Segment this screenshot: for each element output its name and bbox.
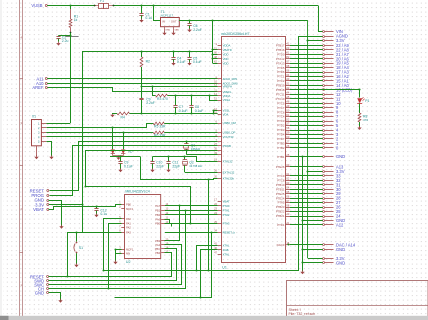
svg-text:PTC4: PTC4 <box>277 115 285 119</box>
node 28 <box>323 198 325 200</box>
svg-text:PB4: PB4 <box>155 251 160 255</box>
wire right row <box>290 112 323 114</box>
wire right row2 <box>290 198 323 200</box>
svg-text:PTA12: PTA12 <box>276 57 285 61</box>
wire GND row3 <box>302 249 323 251</box>
junction 3V3-bus <box>211 19 213 21</box>
wire right row <box>290 107 323 109</box>
svg-text:PTE26: PTE26 <box>276 165 285 169</box>
node 17 / A3 <box>323 72 325 74</box>
svg-text:PTB23: PTB23 <box>276 205 285 209</box>
svg-text:U2: U2 <box>126 260 131 264</box>
svg-text:R2: R2 <box>146 60 150 64</box>
ground C11 <box>166 170 170 173</box>
pin U2 PA2 <box>121 227 125 229</box>
node 6 <box>323 121 325 123</box>
ground C6 <box>187 30 191 32</box>
node 1 <box>323 143 325 145</box>
node 27 <box>323 202 325 204</box>
pin U1 PTD1 right2 <box>286 224 291 226</box>
ground S1 <box>74 265 78 268</box>
wire GND bus v2 <box>302 157 304 272</box>
wire VUSB rail right <box>113 5 319 7</box>
resistor R1 <box>70 6 72 10</box>
pin U1 PTA13 right <box>286 63 291 65</box>
capacitor C10 <box>152 157 154 162</box>
pin X1-4 <box>41 136 46 138</box>
svg-text:MCF1: MCF1 <box>126 247 134 251</box>
svg-text:PA4: PA4 <box>155 243 160 247</box>
wire right row <box>290 76 323 78</box>
svg-text:GND: GND <box>165 30 170 32</box>
wire right row <box>290 134 323 136</box>
node 3.3V <box>323 40 325 42</box>
pin U1 PTC2 right <box>286 80 291 82</box>
pin U1 PTB23 right2 <box>286 207 291 209</box>
node 11 <box>323 98 325 100</box>
resistor R4 <box>112 113 117 115</box>
wire swd d <box>165 220 191 224</box>
junction VUSB-T1 <box>152 4 154 6</box>
svg-text:PB3: PB3 <box>155 239 160 243</box>
pin U2 PB0 <box>121 204 125 206</box>
wire VBUS down to X1 <box>70 35 72 123</box>
svg-text:PB1: PB1 <box>155 208 160 212</box>
wire Q2 bottom to EXTAL32 <box>185 172 218 174</box>
wire GND row2 <box>302 220 323 222</box>
svg-text:32.768 kHz: 32.768 kHz <box>189 164 203 168</box>
pin U1 VREFH <box>218 86 222 88</box>
pin U1 PTD0 right <box>286 54 291 56</box>
wire AREF <box>48 88 218 92</box>
junction VUSB-R1 <box>69 4 71 6</box>
wire right row2 <box>290 216 323 218</box>
pin U1 PTB18 right <box>286 89 291 91</box>
pin U2 PB0 right <box>161 223 165 225</box>
svg-text:PTB17: PTB17 <box>276 44 285 48</box>
pin U1 USB0_DM <box>218 123 222 125</box>
wire VDD feed <box>213 54 218 56</box>
capacitor C1 <box>141 6 143 14</box>
junction VDDA-C8 <box>190 94 192 96</box>
svg-text:PTD0: PTD0 <box>277 52 285 56</box>
svg-text:2.2u: 2.2u <box>62 39 69 43</box>
svg-text:PTA3: PTA3 <box>223 222 230 226</box>
node 0 <box>323 147 325 149</box>
svg-text:VSSA: VSSA <box>223 98 231 102</box>
pin U2 PA1 <box>121 223 125 225</box>
wire U2 reset to U1 <box>165 232 218 234</box>
svg-text:Q2: Q2 <box>189 160 194 164</box>
junction swd d <box>189 222 191 224</box>
node 31 <box>323 184 325 186</box>
svg-text:NCP1117: NCP1117 <box>161 13 174 17</box>
wire X1 D- to R5 <box>47 124 154 128</box>
svg-text:PTA0: PTA0 <box>223 204 230 208</box>
ground T1 GND <box>162 33 166 36</box>
wire right row <box>290 63 323 65</box>
svg-text:0.1uF: 0.1uF <box>193 60 202 64</box>
wire VSS stub <box>214 111 218 114</box>
svg-text:PTD2: PTD2 <box>277 124 285 128</box>
node DAC / A14 <box>323 244 325 246</box>
pin U1 PTC6 right <box>286 112 291 114</box>
svg-text:VDD: VDD <box>223 61 229 65</box>
wire U2 pa0 route <box>104 219 122 271</box>
svg-text:PTA1: PTA1 <box>223 208 230 212</box>
wire 32k top net <box>153 157 218 162</box>
svg-text:VDDA: VDDA <box>223 44 231 48</box>
wire Dminus drop <box>112 128 114 150</box>
pin U1 ADC0_DP0 <box>218 78 222 80</box>
svg-text:P1: P1 <box>365 99 369 103</box>
pin U2 PB1 right <box>161 210 165 212</box>
svg-text:0.1uF: 0.1uF <box>179 109 188 113</box>
ground T1 TAB <box>171 33 175 36</box>
wire right row <box>290 130 323 132</box>
junction v2 c <box>301 261 303 263</box>
pin U1 VOUT33 <box>218 136 222 138</box>
ground C12 <box>94 215 98 218</box>
junction pb3 riser <box>178 204 180 206</box>
wire pad2 RESET <box>49 253 172 277</box>
pin U1 XTAL32 <box>218 161 222 163</box>
wire CH up route <box>109 224 122 289</box>
pin X1-5 <box>41 141 46 143</box>
pin U1 VDDA <box>218 45 222 47</box>
junction VREFH-R3 <box>151 85 153 87</box>
wire reset bottom route <box>115 233 212 298</box>
svg-text:PB2: PB2 <box>155 213 160 217</box>
crystal Q1 <box>186 141 188 143</box>
pin U1 <box>218 141 222 143</box>
svg-text:AREF: AREF <box>32 85 44 90</box>
capacitor C12 <box>96 207 98 209</box>
junction Q1 <box>185 140 187 142</box>
wire R5 to USB0_DM <box>164 123 217 125</box>
wire aux route lower <box>86 187 218 224</box>
node VIN <box>323 31 325 33</box>
pin U1 PTC8 right2 <box>286 180 291 182</box>
pin U1 PTC9 right2 <box>286 175 291 177</box>
svg-text:U1: U1 <box>222 266 227 270</box>
svg-text:PSWB: PSWB <box>223 144 231 148</box>
pin U1 USB0_DP <box>218 132 222 134</box>
svg-text:VDD: VDD <box>223 57 229 61</box>
scrollbar bottom <box>0 316 428 320</box>
pin U2 MCF1 <box>121 208 125 210</box>
wire pad 3.3V <box>49 204 83 206</box>
junction VREFH-C9 <box>140 85 142 87</box>
svg-text:PTB22: PTB22 <box>276 210 285 214</box>
wire 3.3V drop right <box>307 21 309 258</box>
junction reset pad2 <box>66 275 68 277</box>
capacitor C8 <box>191 96 193 106</box>
wire right row2 <box>290 207 323 209</box>
wire 3.3V rail <box>179 20 308 22</box>
wire right row <box>290 103 323 105</box>
svg-text:PTD7: PTD7 <box>277 137 285 141</box>
pin U1 PTE26 right2 <box>286 166 291 168</box>
regulator T1 <box>161 18 180 27</box>
junction reset drop <box>210 231 212 233</box>
pin U1 PTB16 right <box>286 49 291 51</box>
pin U1 PTC3 right <box>286 121 291 123</box>
ground D1 <box>116 157 120 160</box>
node GND <box>323 156 325 158</box>
pin U2 PB3 right <box>161 240 165 242</box>
node A12 <box>323 224 325 226</box>
svg-text:PTC3: PTC3 <box>277 119 285 123</box>
wire right row2 <box>290 189 323 191</box>
pin U1 PTC10 right <box>286 98 291 100</box>
title block <box>287 281 428 317</box>
node 18 / A4 <box>323 67 325 69</box>
wire R3 drop <box>153 87 156 96</box>
junction LED <box>358 88 360 90</box>
junction 208 bottom <box>207 269 209 271</box>
svg-text:GND: GND <box>35 291 44 296</box>
wire VDDA sub <box>210 96 218 101</box>
junction west-C5 <box>188 50 190 52</box>
wire swd a <box>165 205 218 207</box>
node 32 <box>323 180 325 182</box>
junction west-R2 <box>140 50 142 52</box>
pin U1 VDD <box>218 54 222 56</box>
wire right row2 <box>290 202 323 204</box>
junction gnd-C9 <box>140 112 142 114</box>
svg-text:22pF: 22pF <box>156 164 164 168</box>
node 2 <box>323 138 325 140</box>
svg-text:USB0_DM: USB0_DM <box>223 121 237 125</box>
svg-text:0.1uF: 0.1uF <box>124 164 133 168</box>
svg-text:PTE24: PTE24 <box>276 196 285 200</box>
wire right row <box>290 49 323 51</box>
wire R1 to C2 <box>59 35 70 37</box>
capacitor C4 <box>173 51 175 57</box>
pin U1 PTC1 right <box>286 76 291 78</box>
pin U1 RESET_b <box>218 232 222 234</box>
svg-text:GND: GND <box>336 247 345 252</box>
wire pad2 SWC <box>49 245 182 285</box>
pin U1 PTB10 right2 <box>286 184 291 186</box>
svg-text:A12: A12 <box>336 222 344 227</box>
capacitor C2 <box>58 35 60 37</box>
wire swd c <box>165 214 218 216</box>
svg-text:VBAT: VBAT <box>33 207 44 212</box>
wire right row2 <box>290 193 323 195</box>
wire right row <box>290 45 323 47</box>
node 16 / A2 <box>323 76 325 78</box>
svg-text:OUT: OUT <box>171 20 177 24</box>
wire right row <box>290 116 323 118</box>
node 5 <box>323 125 325 127</box>
node 13 (LED) <box>323 89 325 91</box>
resistor R3 <box>156 94 168 97</box>
junction pad 3.3V <box>81 203 83 205</box>
svg-text:PTC5: PTC5 <box>277 101 285 105</box>
ground R8 <box>357 128 361 131</box>
svg-text:VOUT33: VOUT33 <box>223 135 234 139</box>
junction pa0 route <box>102 269 104 271</box>
wire right row <box>290 72 323 74</box>
pin U1 PTB22 right2 <box>286 211 291 213</box>
wire right row2 <box>290 224 323 226</box>
pin U2 PBC right <box>161 248 165 250</box>
svg-text:PTD5: PTD5 <box>277 66 285 70</box>
svg-text:0.1uF: 0.1uF <box>177 60 186 64</box>
svg-text:mk20DX256vLH7: mk20DX256vLH7 <box>221 32 249 36</box>
svg-text:MKL04Z32VLC4: MKL04Z32VLC4 <box>125 190 150 194</box>
svg-text:VBAT: VBAT <box>223 199 230 203</box>
pin U1 PSWB <box>218 145 222 147</box>
pin T1 GND <box>164 27 166 33</box>
wire right row <box>290 125 323 127</box>
pin U1 PTC5 right <box>286 103 291 105</box>
pin U1 VSSL <box>218 110 222 112</box>
junction v2 b <box>301 248 303 250</box>
pin U1 PTB1 right <box>286 156 291 158</box>
pin U1 VDD <box>218 58 222 60</box>
svg-text:PA1: PA1 <box>126 221 131 225</box>
pin X1-2 <box>41 127 46 129</box>
node 8 <box>323 112 325 114</box>
svg-text:22pF: 22pF <box>172 164 180 168</box>
pin U1 PTB19 right <box>286 85 291 87</box>
wire swd e <box>165 224 172 227</box>
pin U1 PTD6 right <box>286 72 291 74</box>
pin U1 PTB21 right2 <box>286 216 291 218</box>
wire right row <box>290 121 323 123</box>
diode D1a <box>111 150 115 154</box>
junction aux <box>84 185 86 187</box>
capacitor C11 <box>168 157 170 162</box>
svg-text:PTB11: PTB11 <box>276 187 285 191</box>
junction gnd-C7 <box>174 112 176 114</box>
svg-text:USB0_DP: USB0_DP <box>223 130 236 134</box>
wire DAC row <box>290 244 323 246</box>
junction DAC row <box>287 243 289 245</box>
wire right row <box>290 98 323 100</box>
pin U1 PTA5 right2 <box>286 202 291 204</box>
pin U1 XGB <box>218 249 222 251</box>
pin U1 PTB3 right <box>286 143 291 145</box>
svg-text:470: 470 <box>363 118 368 122</box>
pin U1 PTC7 right <box>286 107 291 109</box>
wire right row <box>290 147 323 149</box>
ground C5 <box>187 63 191 66</box>
junction S1 <box>75 231 77 233</box>
wire right row2 <box>290 184 323 186</box>
pin U1 VREFL <box>218 91 222 93</box>
wire pad VBAT <box>49 205 122 210</box>
wire X1 pin5 to gnd <box>47 142 52 157</box>
wire X1 pin4 <box>46 136 217 138</box>
wire reset net bottom <box>68 233 122 277</box>
svg-text:PTC9: PTC9 <box>277 174 285 178</box>
ground C1 <box>139 20 143 23</box>
svg-text:VDD: VDD <box>223 52 229 56</box>
node 12 <box>323 94 325 96</box>
node 33 <box>323 175 325 177</box>
node GND <box>323 262 325 264</box>
ground X1 shield <box>34 157 38 160</box>
pin T1 TAB <box>173 27 175 33</box>
wire right row2 <box>290 211 323 213</box>
pin U1 PTD5 right <box>286 67 291 69</box>
wire A10 <box>47 83 217 85</box>
node 30 <box>323 189 325 191</box>
junction D+ diode <box>122 131 124 133</box>
pin U1 XTAL <box>218 254 222 256</box>
wire X1 D+ to R6 <box>46 132 153 134</box>
resistor R8 <box>359 103 361 113</box>
fuse F1 <box>95 5 99 7</box>
svg-text:MCF1: MCF1 <box>126 207 134 211</box>
junction 3V3 row <box>306 39 308 41</box>
wire GND row4 <box>302 262 323 264</box>
wire 3.3V to label <box>308 40 323 42</box>
wire R6 to USB0_DP <box>164 132 217 134</box>
node 15 / A1 <box>323 80 325 82</box>
wire reset-top net <box>50 142 218 191</box>
wire right row2 <box>290 166 323 168</box>
svg-text:PTB3: PTB3 <box>277 141 284 145</box>
pin U1 PTA2 <box>218 214 222 216</box>
node 4 <box>323 130 325 132</box>
svg-text:PTB1: PTB1 <box>277 155 284 159</box>
pin X1-3 <box>41 132 46 134</box>
svg-text:PTB21: PTB21 <box>276 214 285 218</box>
ground C9b <box>118 170 122 173</box>
resistor R6 <box>153 131 164 134</box>
pin U1 ADC0_DM0 <box>218 83 222 85</box>
svg-text:VUSB: VUSB <box>31 3 42 8</box>
junction VBAT-C12 <box>95 205 97 207</box>
node 23 / A9 <box>323 45 325 47</box>
node 25 <box>323 211 325 213</box>
wire U2 pb3 riser <box>165 206 180 241</box>
wire U2 vss2 <box>116 253 122 255</box>
svg-text:XTAL: XTAL <box>223 243 230 247</box>
node 14 / A0 <box>323 85 325 87</box>
wire VDD feed <box>213 63 218 65</box>
ground C10 <box>150 170 154 173</box>
svg-text:PTD6: PTD6 <box>277 70 285 74</box>
svg-text:0.1u: 0.1u <box>145 16 152 20</box>
svg-text:VBATD: VBATD <box>223 48 232 52</box>
pin U1 PTE25 right2 <box>286 193 291 195</box>
svg-text:PTC2: PTC2 <box>277 79 285 83</box>
node 21 / A7 <box>323 54 325 56</box>
svg-text:PA3: PA3 <box>126 230 131 234</box>
wire pad2 GND <box>49 293 61 301</box>
ground C2 <box>56 43 60 46</box>
wire VDD feed <box>213 58 218 60</box>
wire 3.3V to label3 <box>308 258 323 260</box>
svg-text:RESET_b: RESET_b <box>223 230 236 234</box>
svg-text:PB0: PB0 <box>126 202 131 206</box>
wire 3.3V to label2 <box>308 171 323 173</box>
pin U1 PTA12 right <box>286 58 291 60</box>
pin U1 VBAT <box>218 201 222 203</box>
node A13 <box>323 166 325 168</box>
pin U1 PTD4 right <box>286 134 291 136</box>
wire right row <box>290 94 323 96</box>
svg-text:F1: F1 <box>100 0 104 3</box>
wire aux route upper <box>86 151 218 187</box>
wire 3.3V bus down <box>212 21 214 63</box>
